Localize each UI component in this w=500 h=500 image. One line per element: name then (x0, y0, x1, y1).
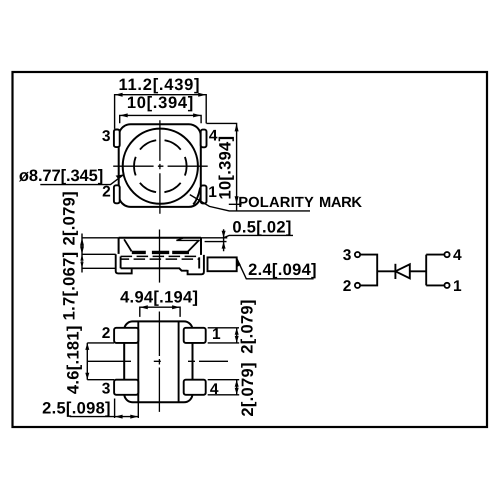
left wires (360, 255, 396, 286)
svg-text:1.7[.067]: 1.7[.067] (61, 252, 79, 321)
side view dome slants (124, 239, 199, 252)
dimension 2.5[.098] (70, 397, 139, 418)
pin 1 tab (bottom-right) (201, 185, 207, 203)
svg-text:3: 3 (102, 128, 111, 145)
svg-text:4: 4 (453, 247, 462, 264)
side view centerline (159, 230, 161, 283)
button inner dashed circle (134, 140, 187, 193)
svg-text:2: 2 (343, 278, 352, 295)
svg-text:1: 1 (453, 278, 462, 295)
pin 3 tab (top-left) (114, 130, 120, 148)
button outer circle (123, 129, 198, 204)
side view right terminal pad (208, 257, 237, 271)
terminal 4 (444, 252, 449, 257)
svg-text:2.5[.098]: 2.5[.098] (42, 399, 111, 417)
pad 4 (bottom-right) (184, 380, 206, 395)
top view body outline (119, 124, 201, 207)
svg-text:ø8.77[.345]: ø8.77[.345] (19, 167, 103, 185)
svg-text:2.4[.094]: 2.4[.094] (248, 261, 317, 279)
side view cap left edge (118, 238, 120, 254)
right dimensions 2[.079] x2 (208, 328, 240, 395)
svg-text:2[.079]: 2[.079] (61, 191, 79, 245)
svg-text:2: 2 (102, 325, 111, 342)
side view left terminal clip (116, 254, 132, 273)
polarity chamfer on body corner (193, 188, 200, 205)
left dimension 4.6[.181] (87, 343, 114, 380)
terminal 3 (355, 252, 360, 257)
svg-text:1: 1 (212, 326, 221, 343)
polarity mark leader (190, 195, 310, 211)
side view top-right sliver (chamfer edge) (176, 238, 199, 240)
svg-text:4.6[.181]: 4.6[.181] (65, 325, 83, 394)
bottom view horizontal centerline (87, 360, 228, 362)
bottom view body outline (124, 321, 192, 402)
side view hidden contact bar (bold dashes) (132, 251, 189, 254)
svg-text:3: 3 (102, 380, 111, 397)
top view horizontal centerline (113, 165, 208, 167)
side view right terminal clip (188, 255, 204, 274)
diode triangle (395, 264, 409, 278)
bottom view vertical centerline (158, 312, 160, 412)
svg-text:2[.079]: 2[.079] (239, 362, 257, 416)
dimension 4.94[.194] (140, 307, 180, 317)
svg-text:0.5[.02]: 0.5[.02] (232, 218, 291, 236)
side view cap right edge (200, 238, 202, 255)
svg-text:10[.394]: 10[.394] (127, 94, 194, 112)
svg-text:2: 2 (102, 184, 111, 201)
bottom view inner vertical edges (138, 321, 178, 402)
dimension 11.2[.439] (115, 95, 207, 129)
dimension 0.5[.02] (201, 229, 293, 251)
left stacked dimensions 2[.079] / 1.7[.067] (82, 234, 119, 273)
terminal 2 (355, 283, 360, 288)
pin 2 tab (bottom-left) (114, 185, 120, 203)
svg-text:11.2[.439]: 11.2[.439] (118, 76, 200, 94)
side view base bottom edge (121, 268, 188, 270)
side view top surface (119, 237, 201, 239)
side view hidden lines (thin dashes) (121, 255, 200, 257)
svg-text:3: 3 (343, 247, 352, 264)
svg-text:POLARITY: POLARITY (238, 195, 314, 211)
svg-text:2[.079]: 2[.079] (238, 299, 256, 353)
pad 2 (top-left) (114, 328, 138, 343)
terminal 1 (444, 283, 449, 288)
dimension 2.4[.094] leader (237, 259, 314, 279)
pad 1 (top-right) (184, 328, 206, 343)
pad 3 (bottom-left) (114, 380, 138, 395)
top view vertical centerline (159, 120, 161, 213)
pin 4 tab (top-right) (201, 130, 207, 148)
svg-text:4.94[.194]: 4.94[.194] (120, 289, 198, 307)
svg-text:MARK: MARK (319, 195, 362, 211)
diode cathode bar (394, 264, 396, 279)
right wires (410, 255, 445, 286)
dimension 10[.394] horizontal (120, 115, 201, 123)
dimension 10[.394] vertical right (206, 123, 241, 210)
border frame (13, 72, 488, 427)
svg-text:10[.394]: 10[.394] (217, 136, 235, 200)
